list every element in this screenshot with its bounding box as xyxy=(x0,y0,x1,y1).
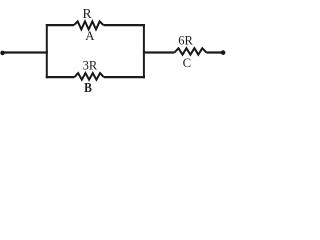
wire: bottom branch left lead xyxy=(46,76,75,78)
svg-text:C: C xyxy=(183,56,192,70)
svg-text:A: A xyxy=(85,29,95,43)
resistor 6R (C): zigzag xyxy=(175,48,207,55)
wire: top branch right lead xyxy=(103,24,145,26)
svg-text:3R: 3R xyxy=(83,58,98,72)
node: left terminal dot xyxy=(0,51,5,56)
wire: bottom branch right lead xyxy=(104,76,145,78)
wire: top branch left lead xyxy=(46,24,74,26)
svg-text:6R: 6R xyxy=(178,34,193,48)
resistor R (A): zigzag xyxy=(74,21,103,29)
node: right terminal dot xyxy=(221,50,226,55)
svg-text:R: R xyxy=(82,6,92,21)
resistor 3R (B): zigzag xyxy=(75,73,104,80)
wire: right vertical bus of parallel pair xyxy=(143,24,145,78)
wire: middle lead from right bus to resistor C xyxy=(143,51,175,53)
wire: left lead from terminal to left junction xyxy=(3,51,48,53)
wire: right lead from resistor C to right terminal xyxy=(206,51,224,53)
svg-text:B: B xyxy=(84,80,92,95)
wire: left vertical bus of parallel pair xyxy=(46,24,48,78)
